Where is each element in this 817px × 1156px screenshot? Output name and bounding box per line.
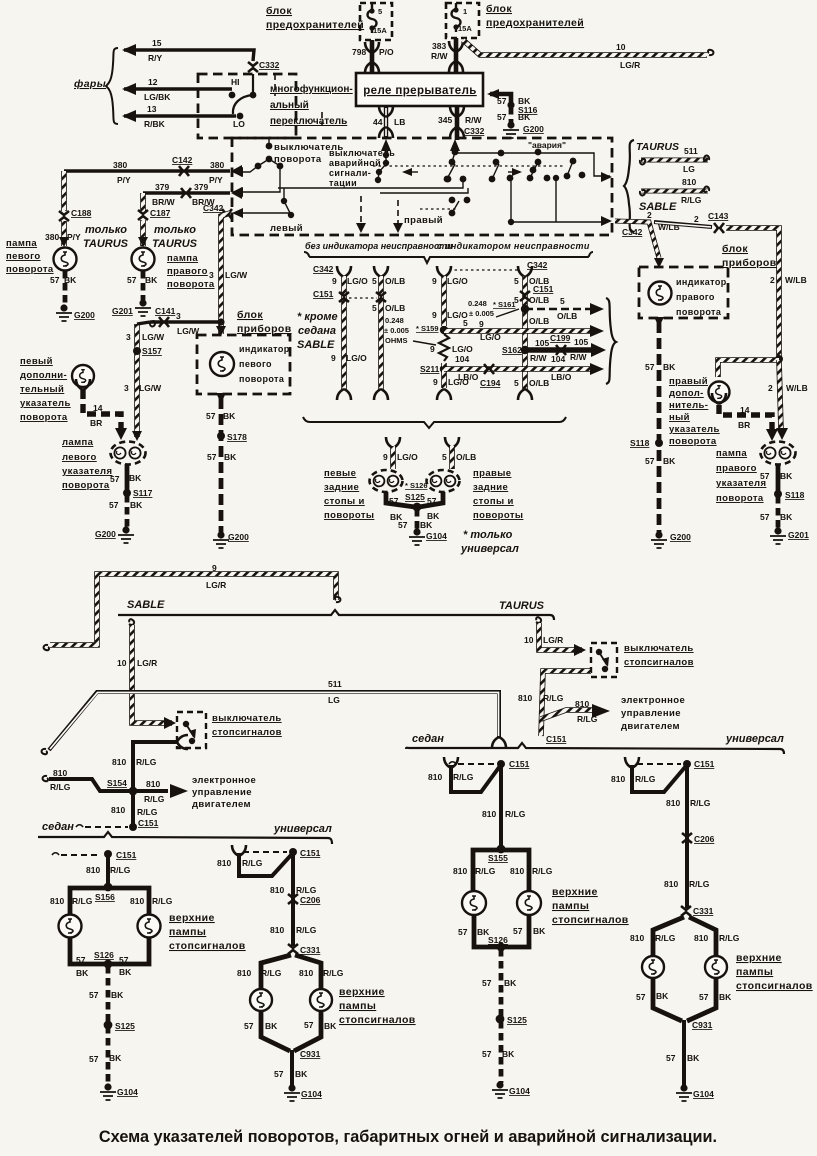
- C4: dashed feed + C151: [637, 763, 681, 765]
- ground G200 (left indicator): [213, 531, 229, 548]
- dashed drops to lower section: [361, 196, 398, 226]
- svg-text:2: 2: [647, 210, 652, 220]
- svg-text:с индикатором неисправности: с индикатором неисправности: [437, 241, 590, 251]
- svg-text:указатель: указатель: [20, 398, 71, 409]
- svg-text:управление: управление: [621, 708, 681, 719]
- wire 57 BK right lamp: [776, 464, 781, 492]
- svg-text:3: 3: [176, 311, 181, 321]
- svg-text:798: 798: [352, 47, 366, 57]
- small left arrow (hazard): [404, 171, 418, 173]
- svg-text:1: 1: [463, 7, 467, 16]
- svg-text:0.248: 0.248: [385, 316, 404, 325]
- svg-text:2: 2: [770, 275, 775, 285]
- svg-text:S156: S156: [95, 892, 115, 902]
- svg-text:9: 9: [332, 276, 337, 286]
- svg-text:810: 810: [270, 885, 284, 895]
- svg-text:C342: C342: [203, 203, 224, 213]
- connector C188: [59, 211, 69, 221]
- wire 379 BR/W: [143, 191, 230, 194]
- svg-text:2: 2: [694, 214, 699, 224]
- resistor (zigzag): [439, 334, 449, 361]
- svg-text:810: 810: [50, 896, 64, 906]
- splice S118 right: [774, 490, 782, 498]
- svg-text:R/Y: R/Y: [148, 53, 163, 63]
- svg-text:57: 57: [699, 992, 709, 1002]
- svg-text:810: 810: [146, 779, 160, 789]
- svg-text:R/LG: R/LG: [296, 925, 317, 935]
- svg-text:BK: BK: [780, 471, 793, 481]
- svg-text:G201: G201: [788, 530, 809, 540]
- right side marker lamp: [709, 382, 730, 403]
- svg-text:верхние: верхние: [169, 912, 215, 924]
- splice S162: [521, 346, 529, 354]
- svg-text:S155: S155: [488, 853, 508, 863]
- svg-text:G104: G104: [301, 1089, 322, 1099]
- C2 connector C331: [288, 944, 298, 954]
- svg-text:S178: S178: [227, 432, 247, 442]
- wire 2 W/LB to right cluster: [726, 228, 779, 359]
- svg-text:поворота: поворота: [676, 307, 722, 317]
- wire 511 LG: [42, 749, 48, 754]
- svg-text:810: 810: [518, 693, 532, 703]
- wire 57 BK from indicator: [654, 317, 664, 327]
- C1 splice S125: [104, 1021, 113, 1030]
- flasher relay box: [356, 73, 483, 106]
- turn switch contacts: [268, 139, 270, 146]
- output bus to indicators: [511, 179, 608, 222]
- svg-text:57: 57: [76, 955, 86, 965]
- wire 14 BR right: [712, 393, 726, 404]
- svg-text:LG/O: LG/O: [452, 344, 473, 354]
- divider rule left (section 3): [38, 832, 332, 844]
- svg-text:LG/O: LG/O: [397, 452, 418, 462]
- svg-text:универсал: универсал: [725, 733, 784, 745]
- C4 lamp L: [642, 956, 664, 978]
- svg-text:104: 104: [551, 354, 565, 364]
- svg-text:S117: S117: [133, 488, 153, 498]
- svg-text:14: 14: [740, 405, 750, 415]
- wire 2 W/LB down to lamp: [779, 360, 781, 430]
- svg-text:57: 57: [127, 275, 137, 285]
- svg-text:стопы и: стопы и: [473, 496, 514, 507]
- svg-text:блок: блок: [722, 243, 748, 255]
- svg-text:TAURUS: TAURUS: [83, 238, 129, 250]
- svg-text:57: 57: [482, 978, 492, 988]
- svg-text:57: 57: [398, 520, 408, 530]
- svg-text:альный: альный: [270, 100, 309, 111]
- svg-text:57: 57: [109, 500, 119, 510]
- svg-text:BK: BK: [518, 112, 531, 122]
- svg-text:C332: C332: [259, 60, 280, 70]
- svg-text:сигнали-: сигнали-: [329, 168, 371, 178]
- svg-text:верхние: верхние: [552, 886, 598, 898]
- C2 ground G104: [284, 1084, 300, 1101]
- svg-text:R/LG: R/LG: [719, 933, 740, 943]
- brake sw out 810 to S154: [133, 742, 177, 789]
- svg-text:15A: 15A: [458, 24, 472, 33]
- C1 lamp loop top: [70, 888, 149, 914]
- svg-text:S118: S118: [785, 490, 805, 500]
- svg-text:поворота: поворота: [669, 436, 717, 447]
- svg-text:предохранителей: предохранителей: [266, 19, 364, 31]
- splice S157: [133, 347, 141, 355]
- svg-text:седан: седан: [412, 733, 444, 745]
- connector C332 (headlamp feed): [248, 62, 258, 72]
- svg-text:810: 810: [112, 757, 126, 767]
- C3: dashed feed + C151: [449, 762, 456, 764]
- svg-text:2: 2: [768, 383, 773, 393]
- wire 10 LG/R long feed: [463, 40, 707, 55]
- svg-text:379: 379: [194, 182, 208, 192]
- svg-text:0.248: 0.248: [468, 299, 487, 308]
- bus line to hazard contacts: [455, 153, 610, 176]
- svg-text:стопсигналов: стопсигналов: [552, 914, 629, 926]
- svg-text:810: 810: [482, 809, 496, 819]
- svg-text:810: 810: [130, 896, 144, 906]
- left side marker lamp: [72, 365, 94, 387]
- C4 split to lamps: [653, 917, 716, 955]
- svg-text:BK: BK: [111, 990, 124, 1000]
- C3 ground G104: [492, 1081, 508, 1098]
- svg-text:BK: BK: [687, 1053, 700, 1063]
- svg-text:C342: C342: [622, 227, 643, 237]
- svg-text:LB/O: LB/O: [458, 372, 479, 382]
- svg-text:511: 511: [328, 679, 342, 689]
- svg-text:BK: BK: [780, 512, 793, 522]
- svg-text:57: 57: [207, 452, 217, 462]
- svg-text:стопсигналов: стопсигналов: [169, 940, 246, 952]
- svg-text:LG/R: LG/R: [543, 635, 563, 645]
- svg-text:стопы и: стопы и: [324, 496, 365, 507]
- connector C187: [138, 210, 148, 220]
- svg-text:C151: C151: [313, 289, 334, 299]
- svg-text:5: 5: [514, 276, 519, 286]
- svg-text:BK: BK: [719, 992, 732, 1002]
- svg-text:S118: S118: [630, 438, 650, 448]
- C3 lamp loop top: [473, 850, 529, 890]
- wire B 5 O/LB: [374, 266, 388, 277]
- svg-text:HI: HI: [231, 77, 240, 87]
- rear left feed 9 LG/O: [386, 437, 400, 448]
- svg-text:SABLE: SABLE: [297, 339, 335, 351]
- right instrument cluster dashed box: [639, 267, 728, 318]
- svg-text:511: 511: [684, 146, 698, 156]
- svg-text:* S161: * S161: [493, 300, 516, 309]
- branch to ECM right: [541, 710, 592, 719]
- wire 44 LB relay to switch: [384, 106, 388, 138]
- hazard feed contacts (44 LB): [381, 139, 391, 151]
- C1 wire 810: [106, 854, 110, 885]
- svg-text:O/LB: O/LB: [529, 295, 549, 305]
- svg-text:3: 3: [126, 332, 131, 342]
- svg-text:управление: управление: [192, 787, 252, 798]
- svg-text:W/LB: W/LB: [785, 275, 807, 285]
- wire 380 left drop: [61, 171, 67, 211]
- svg-text:810: 810: [575, 699, 589, 709]
- svg-text:G200: G200: [74, 310, 95, 320]
- svg-text:C151: C151: [509, 759, 530, 769]
- svg-text:9: 9: [479, 319, 484, 329]
- svg-text:C151: C151: [546, 734, 567, 744]
- svg-text:C188: C188: [71, 208, 92, 218]
- wire 57 BK relay ground: [490, 94, 511, 104]
- svg-text:R/W: R/W: [530, 353, 548, 363]
- svg-text:LG/O: LG/O: [346, 353, 367, 363]
- fuse F2 glyph: [452, 3, 461, 32]
- top brace: [304, 252, 593, 263]
- svg-text:57: 57: [244, 1021, 254, 1031]
- wire 10 LG/R sable drop: [128, 619, 135, 626]
- svg-text:BK: BK: [295, 1069, 308, 1079]
- svg-text:R/LG: R/LG: [681, 195, 702, 205]
- svg-text:G200: G200: [523, 124, 544, 134]
- svg-text:певый: певый: [20, 356, 53, 367]
- branch to C143: [654, 222, 712, 227]
- svg-text:правого: правого: [167, 266, 208, 277]
- svg-text:810: 810: [237, 968, 251, 978]
- svg-text:15A: 15A: [373, 26, 387, 35]
- svg-text:810: 810: [86, 865, 100, 875]
- svg-text:поворота: поворота: [716, 493, 764, 504]
- svg-text:C151: C151: [138, 818, 159, 828]
- contact pair C под авария: [535, 149, 542, 156]
- wire 57 BK: [63, 271, 68, 305]
- svg-text:фары: фары: [74, 78, 106, 90]
- C2 lamp bottoms join: [261, 1011, 321, 1051]
- wire 810 R/LG stub: [641, 189, 708, 194]
- svg-text:LG/O: LG/O: [480, 332, 501, 342]
- svg-text:R/W: R/W: [431, 51, 449, 61]
- svg-text:стопсигналов: стопсигналов: [736, 980, 813, 992]
- C4 ground G104: [676, 1084, 692, 1101]
- wire 380 inside to contact: [234, 166, 258, 172]
- svg-text:380: 380: [45, 232, 59, 242]
- svg-text:двигателем: двигателем: [621, 721, 680, 732]
- svg-text:G200: G200: [228, 532, 249, 542]
- wire 57 BK: [141, 271, 146, 300]
- svg-text:R/LG: R/LG: [110, 865, 131, 875]
- svg-text:певые: певые: [324, 468, 356, 479]
- svg-text:C151: C151: [116, 850, 137, 860]
- wire 511 LG stub: [641, 158, 708, 163]
- wire 810 to C151 left: [131, 793, 135, 825]
- svg-text:поворота: поворота: [239, 374, 285, 384]
- svg-text:нитель-: нитель-: [669, 400, 708, 411]
- svg-text:стопсигналов: стопсигналов: [339, 1014, 416, 1026]
- svg-text:10: 10: [616, 42, 626, 52]
- svg-text:C151: C151: [300, 848, 321, 858]
- svg-text:R/LG: R/LG: [144, 794, 165, 804]
- svg-text:BR: BR: [90, 418, 102, 428]
- svg-text:BK: BK: [223, 411, 236, 421]
- svg-text:9: 9: [432, 276, 437, 286]
- svg-text:12: 12: [148, 77, 158, 87]
- svg-text:пампы: пампы: [736, 966, 773, 978]
- svg-text:810: 810: [611, 774, 625, 784]
- svg-text:O/LB: O/LB: [529, 316, 549, 326]
- fuse F1 glyph: [368, 3, 377, 33]
- svg-text:P/Y: P/Y: [209, 175, 223, 185]
- svg-text:стопсигналов: стопсигналов: [212, 727, 282, 738]
- svg-text:стопсигналов: стопсигналов: [624, 657, 694, 668]
- svg-text:810: 810: [630, 933, 644, 943]
- svg-text:R/LG: R/LG: [136, 757, 157, 767]
- C1 lamp R: [138, 915, 161, 938]
- svg-text:правый: правый: [669, 376, 708, 387]
- svg-text:BK: BK: [76, 968, 89, 978]
- svg-text:57: 57: [206, 411, 216, 421]
- svg-text:индикатор: индикатор: [239, 344, 290, 354]
- svg-text:S154: S154: [107, 778, 127, 788]
- splice S117: [123, 489, 131, 497]
- svg-text:S126: S126: [94, 950, 114, 960]
- svg-text:ный: ный: [669, 412, 690, 423]
- svg-text:BK: BK: [224, 452, 237, 462]
- svg-text:дополни-: дополни-: [20, 370, 67, 381]
- svg-text:BR: BR: [738, 420, 750, 430]
- wire 2 W/LB exit to cluster: [615, 221, 659, 258]
- lower left contact pair (правый): [449, 197, 456, 204]
- svg-text:OHMS: OHMS: [385, 336, 408, 345]
- divider rule right: [406, 743, 784, 754]
- C1 wire 57 BK down: [106, 966, 111, 1085]
- fuse box 2 (dashed): [446, 3, 479, 38]
- svg-text:"авария": "авария": [528, 140, 566, 150]
- left front turn lamp: [54, 248, 77, 271]
- svg-text:380: 380: [113, 160, 127, 170]
- C3 splice S126: [497, 943, 506, 952]
- svg-text:G104: G104: [117, 1087, 138, 1097]
- wire 3 LG/W to left marker circuit: [134, 324, 140, 437]
- branch to ECM left: [137, 789, 168, 793]
- svg-text:SABLE: SABLE: [127, 599, 165, 611]
- svg-text:C194: C194: [480, 378, 501, 388]
- svg-text:14: 14: [93, 403, 103, 413]
- svg-text:C151: C151: [533, 284, 554, 294]
- turn/hazard switch assembly dashed box: [232, 138, 612, 235]
- svg-text:C141: C141: [155, 306, 176, 316]
- svg-text:тации: тации: [329, 178, 357, 188]
- svg-text:O/LB: O/LB: [529, 378, 549, 388]
- svg-text:выключатель: выключатель: [624, 643, 694, 654]
- svg-text:57: 57: [666, 1053, 676, 1063]
- svg-text:R/W: R/W: [465, 115, 483, 125]
- wire C 9 LG/O: [437, 266, 451, 277]
- svg-text:810: 810: [299, 968, 313, 978]
- small right arrow: [508, 171, 520, 173]
- contact pair D: [570, 158, 577, 165]
- svg-text:345: 345: [438, 115, 452, 125]
- svg-text:поворота: поворота: [62, 480, 110, 491]
- wire 383 R/W fuse2 to relay: [454, 38, 459, 73]
- svg-text:R/W: R/W: [570, 352, 588, 362]
- svg-text:C331: C331: [300, 945, 321, 955]
- C2 wire 810 down: [291, 853, 295, 946]
- svg-text:BK: BK: [533, 926, 546, 936]
- svg-text:10: 10: [524, 635, 534, 645]
- C3 wire 810 down: [499, 765, 503, 847]
- svg-text:810: 810: [428, 772, 442, 782]
- C4 hook loop 810: [632, 765, 686, 792]
- svg-text:P/Y: P/Y: [117, 175, 131, 185]
- bottom brace: [303, 417, 566, 428]
- wire 379 inside to contact: [234, 166, 280, 192]
- right rear lamp (dashed): [427, 470, 460, 492]
- svg-text:379: 379: [155, 182, 169, 192]
- svg-text:G104: G104: [509, 1086, 530, 1096]
- svg-text:указатель: указатель: [669, 424, 720, 435]
- svg-text:BK: BK: [145, 275, 158, 285]
- bus line y193: [380, 188, 468, 193]
- svg-text:универсал: универсал: [460, 543, 519, 555]
- svg-text:BK: BK: [109, 1053, 122, 1063]
- svg-text:G200: G200: [670, 532, 691, 542]
- svg-text:лампа: лампа: [62, 437, 94, 448]
- svg-text:R/LG: R/LG: [50, 782, 71, 792]
- svg-text:TAURUS: TAURUS: [636, 141, 679, 153]
- wire 14 BR left: [76, 379, 90, 390]
- svg-text:LB/O: LB/O: [551, 372, 572, 382]
- C4 lamp bottoms join: [653, 978, 716, 1021]
- svg-text:блок: блок: [486, 3, 512, 15]
- svg-text:O/LB: O/LB: [557, 311, 577, 321]
- svg-text:G201: G201: [112, 306, 133, 316]
- output wire 5 O/LB: [525, 308, 596, 311]
- wire 57 BK from left indicator: [216, 393, 226, 403]
- splice S118: [655, 439, 663, 447]
- svg-text:13: 13: [147, 104, 157, 114]
- svg-text:LG/O: LG/O: [347, 276, 368, 286]
- svg-text:правого: правого: [716, 463, 757, 474]
- svg-text:R/LG: R/LG: [689, 879, 710, 889]
- svg-text:5: 5: [372, 276, 377, 286]
- svg-text:приборов: приборов: [237, 323, 292, 335]
- ground G200 left front: [56, 304, 72, 321]
- svg-text:LG/W: LG/W: [142, 332, 165, 342]
- svg-text:LG: LG: [328, 695, 340, 705]
- svg-text:S125: S125: [115, 1021, 135, 1031]
- svg-text:допол-: допол-: [669, 388, 704, 399]
- svg-text:P/Y: P/Y: [67, 232, 81, 242]
- svg-text:O/LB: O/LB: [456, 452, 476, 462]
- svg-text:пампа: пампа: [716, 448, 747, 459]
- svg-text:верхние: верхние: [736, 952, 782, 964]
- svg-text:C931: C931: [692, 1020, 713, 1030]
- svg-text:9: 9: [331, 353, 336, 363]
- svg-text:57: 57: [458, 927, 468, 937]
- svg-text:57: 57: [304, 1020, 314, 1030]
- output wire 9 LG/O: [444, 328, 596, 334]
- svg-text:57: 57: [110, 474, 120, 484]
- svg-text:BK: BK: [656, 991, 669, 1001]
- C3 lamp R: [517, 891, 541, 915]
- svg-text:блок: блок: [237, 309, 263, 321]
- svg-text:BK: BK: [130, 500, 143, 510]
- svg-text:BK: BK: [265, 1021, 278, 1031]
- svg-text:блок: блок: [266, 5, 292, 17]
- svg-text:57: 57: [497, 96, 507, 106]
- svg-text:3: 3: [124, 383, 129, 393]
- svg-text:W/LB: W/LB: [786, 383, 808, 393]
- svg-text:универсал: универсал: [273, 823, 332, 835]
- svg-text:9: 9: [212, 563, 217, 573]
- junction dot W/LB: [775, 355, 783, 363]
- wire 798 P/O fuse1 to relay: [370, 40, 375, 73]
- svg-text:LG/R: LG/R: [620, 60, 640, 70]
- svg-text:BK: BK: [64, 275, 77, 285]
- svg-text:57: 57: [274, 1069, 284, 1079]
- svg-text:810: 810: [682, 177, 696, 187]
